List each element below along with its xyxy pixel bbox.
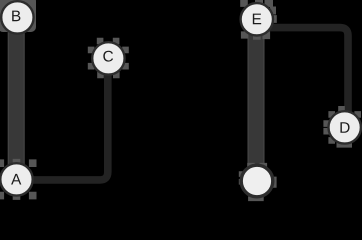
- node E selection handles: [240, 0, 277, 40]
- node B selection highlight square: [0, 0, 36, 32]
- node E circle: [241, 3, 273, 35]
- node C selection handles: [88, 38, 129, 79]
- label D: [340, 122, 349, 133]
- wire edge C-A thin: [33, 70, 108, 180]
- node F circle (unlabeled): [241, 165, 273, 197]
- label C: [103, 51, 113, 62]
- node B circle: [1, 1, 33, 33]
- node F selection handles: [239, 163, 277, 201]
- node C circle: [92, 42, 124, 74]
- wire edge B-A thick: [8, 20, 24, 180]
- label E: [253, 14, 261, 25]
- node D circle: [329, 111, 361, 143]
- wire edge E-F thick: [248, 22, 264, 182]
- node A selection handles: [0, 159, 37, 200]
- wire edge E-D thin: [266, 28, 348, 112]
- label B: [12, 11, 20, 22]
- node D selection handles: [323, 106, 361, 148]
- node A circle: [0, 163, 32, 195]
- label A: [11, 174, 21, 185]
